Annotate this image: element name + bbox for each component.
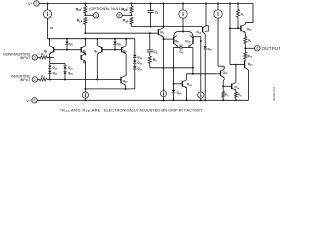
resistor R1B — [130, 17, 133, 24]
junction on V+ rail x=183 — [182, 3, 184, 5]
junction on V+ rail x=206 — [205, 3, 207, 5]
node R8 rail — [222, 99, 224, 101]
wire R5 node — [150, 67, 193, 69]
svg-text:ELECTRONICALLY ADJUSTED ON CHI: ELECTRONICALLY ADJUSTED ON CHIP AT FACTO… — [104, 108, 203, 112]
wire Q11 emitter line down — [173, 52, 175, 91]
wire R1A node to Q9 base — [85, 32, 157, 34]
capacitor C3 — [149, 33, 151, 50]
wire Q11-Q12 base tie — [174, 32, 193, 38]
wire Q11 side drop — [173, 48, 175, 52]
svg-text:3: 3 — [34, 56, 36, 60]
wire R1B node to Q10 base — [132, 26, 203, 28]
transistor Q9 — [157, 29, 159, 35]
svg-text:4: 4 — [34, 99, 36, 103]
current source I3 — [163, 68, 165, 91]
wire first stage bus — [48, 38, 135, 40]
svg-text:(OPTIONAL NULL): (OPTIONAL NULL) — [89, 6, 123, 11]
junction on bus x=126.1 — [125, 38, 127, 40]
wire clamp tie — [49, 57, 51, 63]
node I3 rail — [163, 99, 165, 101]
svg-text:6: 6 — [256, 47, 258, 51]
node Q10 collector node — [200, 40, 202, 42]
wire Q9 node — [164, 38, 174, 40]
current source I5 — [198, 92, 204, 98]
svg-text:2B: 2B — [50, 26, 54, 30]
svg-text:V+: V+ — [28, 2, 34, 6]
diode Q24 — [64, 69, 66, 71]
capacitor C2 — [174, 47, 181, 49]
wire Q13 to rail — [173, 93, 175, 100]
wire Q15 to Q16 base — [223, 85, 232, 87]
node Q12 line on Q15 base wire — [192, 73, 194, 75]
svg-text:OUTPUT: OUTPUT — [262, 46, 280, 51]
transistor Q10 — [202, 27, 204, 32]
node Q14 emitter rail — [186, 99, 188, 101]
junction on bus x=97.3 — [96, 38, 98, 40]
svg-text:7: 7 — [36, 2, 38, 6]
diode Q26 — [134, 58, 136, 60]
node Q15 emitter node — [222, 85, 224, 87]
node Q13 line crossing — [173, 67, 175, 69]
wire Q16 emitter — [235, 90, 237, 92]
diode Q21 — [49, 64, 51, 66]
transistor Q22b bottom center — [120, 77, 122, 83]
diode Q23 — [63, 66, 66, 68]
current source I2 — [182, 4, 184, 10]
junction on V+ rail x=47.5 — [47, 3, 49, 5]
wire Q10 emitter to rail — [205, 4, 207, 26]
transistor Q12 — [192, 37, 194, 44]
wire diode chain to emitter bus — [134, 70, 136, 89]
wire Q10 collector down — [200, 41, 202, 92]
transistor Q15 — [220, 71, 222, 77]
diode Q13 — [172, 90, 175, 93]
wire Q14 base — [174, 83, 183, 85]
junction on bus x=67 — [66, 38, 68, 40]
transistor Q1 — [48, 39, 50, 46]
node Q7 to base wire — [66, 49, 68, 51]
node tail current source tap — [84, 88, 86, 90]
node C3 tap — [149, 32, 151, 34]
junction on bus x=115 — [114, 38, 116, 40]
wire to null pin 1 — [85, 14, 93, 16]
wire Q5-Q4 base — [102, 49, 122, 51]
wire Q15 emitter — [223, 78, 225, 80]
junction on V+ rail x=150.5 — [150, 3, 152, 5]
wire Q10 base loop — [205, 26, 209, 32]
wire Q19 collector — [244, 23, 246, 25]
svg-text:*R2A AND R2B ARE: *R2A AND R2B ARE — [60, 107, 101, 113]
node Q9 node — [163, 38, 165, 40]
resistor R9 — [235, 92, 238, 98]
resistor R6 — [244, 37, 247, 44]
resistor R10 — [244, 52, 247, 59]
wire Q9 node down — [163, 39, 165, 68]
diode Q22 — [49, 69, 51, 71]
wire Q12 side drop — [192, 48, 194, 52]
diode Q25 — [133, 55, 136, 58]
wire Q19 emitter — [244, 32, 246, 36]
wire Q1-Q3 base — [54, 49, 81, 51]
current source I6 — [217, 18, 219, 66]
node R9 rail — [235, 99, 237, 101]
wire V- bottom rail — [37, 99, 248, 101]
node R1A wire junction — [84, 32, 86, 34]
diode Q27 — [134, 64, 136, 67]
transistor Q4 — [121, 47, 123, 52]
node R1B wire to Q9 collector line — [163, 26, 165, 28]
junction on bus x=85.3 — [84, 38, 86, 40]
terminal null pin 1 — [93, 13, 98, 18]
transistor Q19 — [240, 25, 242, 31]
diode Q17 — [204, 34, 206, 46]
svg-text:1: 1 — [95, 14, 97, 18]
terminal +IN pin 3 — [32, 55, 37, 60]
svg-text:INPUT: INPUT — [20, 56, 32, 60]
node C1 tap — [150, 26, 152, 28]
node R2A/R1A junction — [84, 14, 86, 16]
node wire end on Q12 line — [192, 67, 194, 69]
wire to null pin 8 — [122, 14, 131, 16]
resistor R2A — [84, 6, 87, 13]
node I4 to rail — [84, 99, 86, 101]
wire Q16 collector — [235, 65, 237, 83]
node Q22b emitter to bus — [125, 88, 127, 90]
wire emitter bus — [85, 88, 134, 90]
wire Q20 base — [230, 64, 245, 66]
junction on V+ rail x=238 — [237, 3, 239, 5]
resistor R8 — [222, 86, 224, 91]
node drive to Q19 base — [229, 27, 231, 29]
node Q9 line to wire — [163, 67, 165, 69]
wire Q20 collector — [245, 67, 249, 70]
wire drive line — [229, 4, 231, 65]
junction on V+ rail x=230 — [229, 3, 231, 5]
wire to output terminal — [245, 47, 254, 49]
current source I1 — [47, 4, 49, 10]
node Q14 base tap — [173, 83, 175, 85]
wire bus corner down — [134, 39, 136, 55]
node Q8 to base wire — [114, 49, 116, 51]
terminal -IN pin 2 — [32, 77, 37, 82]
node Q16 collector to Q20 base — [235, 64, 237, 66]
wire rail to Q9 collector — [163, 4, 165, 28]
node clamp B to -IN — [64, 79, 66, 81]
transistor Q14 — [181, 81, 183, 87]
junction on V+ rail x=163.4 — [162, 3, 164, 5]
junction on V+ rail x=218 — [217, 3, 219, 5]
resistor R5 — [148, 56, 151, 63]
resistor R3 — [38, 56, 40, 58]
node +IN node — [49, 56, 51, 58]
terminal null pin 8 — [117, 13, 122, 18]
transistor Q5 — [96, 39, 98, 46]
terminal OUTPUT pin 6 — [255, 46, 260, 51]
node Q17 rail — [204, 99, 206, 101]
junction on V+ rail x=131.5 — [131, 3, 133, 5]
wire Q19 base — [230, 27, 241, 29]
node R7 to base wire — [237, 27, 239, 29]
resistor R7 — [237, 4, 239, 10]
node I5 rail — [200, 99, 202, 101]
svg-text:INPUT: INPUT — [20, 78, 32, 82]
node Q5 emitter on -IN wire — [96, 79, 98, 81]
node Q13 rail — [173, 99, 175, 101]
current source I4 tail — [84, 89, 86, 92]
diode Q8 — [114, 39, 116, 42]
wire Q17 to rail — [204, 50, 206, 101]
junction on V+ rail x=85.3 — [84, 3, 86, 5]
transistor Q3 — [80, 47, 82, 52]
svg-text:2: 2 — [34, 78, 36, 82]
resistor R4 — [38, 79, 40, 81]
wire Q15 base — [216, 73, 220, 75]
wire V+ top rail — [39, 3, 253, 5]
resistor R2B — [130, 6, 133, 13]
svg-text:00296-021: 00296-021 — [272, 86, 276, 101]
wire Q15 collector — [223, 66, 225, 69]
transistor Q2 — [80, 55, 82, 60]
resistor R1A — [84, 17, 87, 24]
capacitor C1 — [150, 4, 152, 11]
wire Q12 collector to Q10 node — [193, 36, 201, 38]
node output — [244, 47, 246, 49]
wire R10 to Q20 emitter — [244, 59, 247, 62]
transistor Q11 — [173, 37, 175, 44]
wire Q14 emitter — [186, 88, 188, 101]
wire Q12 line down — [192, 52, 194, 74]
wire Q14 collector — [186, 74, 188, 80]
svg-text:8: 8 — [119, 14, 121, 18]
wire Q14 collector to Q15 base — [187, 73, 217, 75]
wire R6 to output — [244, 44, 246, 49]
node clamp A to -IN — [49, 79, 51, 81]
node R2B/R1B junction — [131, 14, 133, 16]
junction on bus x=49.4 — [48, 38, 50, 40]
transistor Q20 — [244, 62, 246, 68]
node tie to I2 — [182, 31, 184, 33]
svg-text:V−: V− — [26, 99, 32, 103]
diode Q7 — [66, 39, 68, 42]
transistor Q16 — [231, 84, 233, 90]
wire Q9 emitter down — [163, 37, 165, 39]
wire output down — [244, 48, 246, 52]
